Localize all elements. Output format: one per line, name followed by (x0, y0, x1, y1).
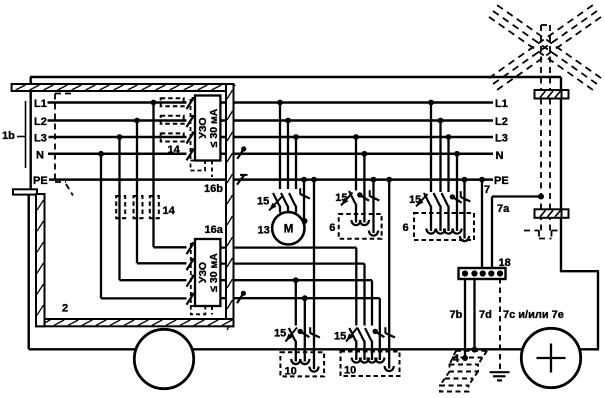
svg-text:L3: L3 (34, 132, 47, 144)
svg-text:N: N (36, 150, 44, 162)
svg-text:PE: PE (494, 175, 509, 187)
svg-text:18: 18 (499, 257, 511, 269)
svg-text:16b: 16b (204, 183, 223, 195)
svg-text:M: M (284, 224, 294, 236)
svg-text:≤ 30 мА: ≤ 30 мА (208, 108, 220, 147)
svg-text:7b: 7b (450, 309, 463, 321)
svg-text:L1: L1 (495, 98, 508, 110)
svg-text:15: 15 (334, 330, 346, 342)
svg-text:15: 15 (257, 196, 269, 208)
svg-text:15: 15 (274, 328, 286, 340)
svg-text:L2: L2 (34, 116, 47, 128)
svg-text:6: 6 (329, 222, 335, 234)
svg-text:L1: L1 (34, 98, 47, 110)
svg-text:14: 14 (168, 144, 181, 156)
svg-text:7a: 7a (497, 203, 510, 215)
svg-text:13: 13 (258, 224, 270, 236)
svg-text:7c и/или 7e: 7c и/или 7e (503, 309, 564, 321)
svg-text:PE: PE (33, 175, 48, 187)
svg-text:N: N (496, 150, 504, 162)
svg-text:10: 10 (285, 366, 297, 378)
svg-text:7: 7 (484, 184, 490, 196)
svg-text:L2: L2 (495, 116, 508, 128)
svg-text:15: 15 (409, 194, 421, 206)
svg-text:4: 4 (453, 353, 460, 365)
svg-text:6: 6 (403, 222, 409, 234)
svg-text:7d: 7d (479, 309, 492, 321)
svg-text:≤ 30 мА: ≤ 30 мА (208, 253, 220, 292)
svg-text:14: 14 (163, 205, 176, 217)
svg-text:10: 10 (344, 365, 356, 377)
svg-text:16a: 16a (205, 224, 224, 236)
svg-text:1b: 1b (2, 130, 15, 142)
svg-text:L3: L3 (495, 132, 508, 144)
svg-text:2: 2 (62, 303, 68, 315)
svg-text:15: 15 (335, 192, 347, 204)
